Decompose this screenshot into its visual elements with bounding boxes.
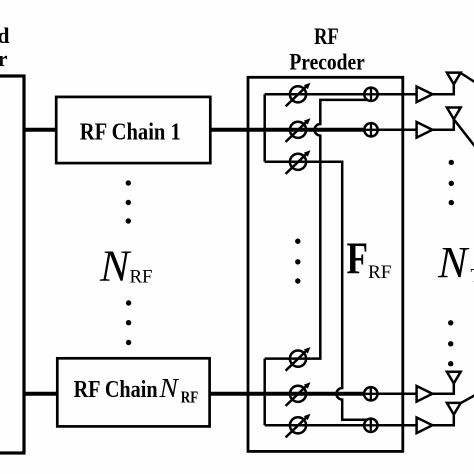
wire: antenna 2 diagonal [455,120,474,146]
svg-text:RF Chain: RF Chain [74,377,158,403]
svg-text:F: F [347,233,369,284]
amp A3 [417,386,433,402]
amp A2 [417,122,433,138]
amp A4 [417,418,433,434]
adder S2 [364,123,377,136]
wire: adder S4 to amp A4 [371,424,417,427]
wire: splitter vertical (top group) [263,94,266,162]
svg-text:RF: RF [314,24,339,49]
wire: amp A2 to antenna 2 feed [432,119,453,130]
RF Chain N_RF box [57,358,209,426]
wire: amp A4 to antenna 4 feed [432,414,453,425]
dots between antennas (upper) [449,160,454,206]
svg-text:RF: RF [130,267,153,288]
wire: antenna 1 diagonal [461,73,474,82]
adder S3 [364,387,377,400]
phase shifter PS5 [286,382,311,406]
svg-text:T: T [471,266,474,287]
wire: amp A3 to antenna 3 feed [432,383,453,394]
svg-text:RF: RF [181,387,199,406]
phase shifter PS4 [286,347,311,371]
svg-text:RF Chain 1: RF Chain 1 [80,119,181,145]
antenna 4 [447,403,461,415]
antenna 1 [447,73,461,85]
phase shifter PS3 [286,150,311,174]
adder S1 [364,88,377,101]
antenna 2 [447,108,461,120]
RF precoder box [248,77,403,451]
svg-text:Baseband: Baseband [0,23,10,48]
svg-text:Precoder: Precoder [289,49,365,74]
dots between RF chains (lower) [126,300,131,345]
baseband precoder box (partially off-canvas left) [0,76,24,453]
svg-text:Precoder: Precoder [0,46,8,71]
wire: adder S1 to amp A1 [371,93,417,96]
adder S4 [364,419,377,432]
wire: antenna 4 diagonal [460,395,474,403]
svg-text:N: N [437,238,470,287]
wire: splitter vertical (bottom group) [263,359,266,426]
svg-text:N: N [159,372,180,403]
phase shifter PS6 [286,414,311,438]
phase shifter PS1 [286,83,311,107]
wire: RF Chain N to adder S3 (thick) [210,392,371,396]
wire: row 3 bottom, splitter to adder S4 [265,424,371,427]
RF Chain 1 box [56,97,210,163]
wire: long vertical B (top PS row3 down to adder S4 top) with hop over bottom thick line [265,162,371,420]
antenna 3 [447,372,461,384]
svg-text:RF: RF [368,262,392,283]
wire: baseband to RF Chain 1 (thick) [23,128,57,132]
wire: adder S3 to amp A3 (thin) [371,393,417,396]
dots between RF chains (upper) [126,180,131,223]
wire: baseband to RF Chain N (thick) [23,392,58,396]
svg-text:N: N [99,241,132,290]
phase shifter PS2 [286,118,311,142]
wire: RF Chain 1 to adder S2 (thick, through precoder edge and PS2) [210,128,371,132]
wire: row 1 top, splitter to adder S1 [265,93,371,96]
wire: amp A1 to antenna 1 feed [432,84,453,94]
wire: adder S2 to amp A2 (thin) [371,129,417,132]
dots between antennas (lower) [448,320,453,366]
wire: long vertical A (bottom PS row1 up to adder S1 bottom) with hop over thick line [265,100,371,359]
amp A1 [417,87,433,103]
dots inside precoder [295,239,300,284]
